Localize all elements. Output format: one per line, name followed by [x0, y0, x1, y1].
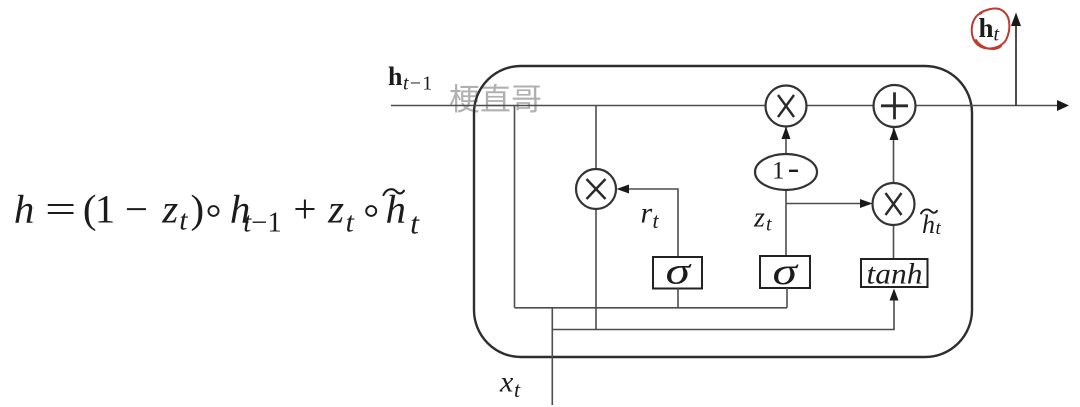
svg-text:x: x: [499, 366, 514, 399]
svg-text:t: t: [410, 206, 420, 241]
wire: bus 1 horizontal: [515, 307, 788, 309]
svg-text:t: t: [766, 214, 772, 236]
svg-text:t: t: [936, 218, 942, 239]
wire: vertical through 1- ellipse from top multiply to sigma2: [785, 106, 787, 257]
wire: bus 2 horizontal to tanh: [552, 291, 894, 330]
svg-text:t: t: [514, 377, 521, 402]
GRU cell rounded rectangle: [474, 66, 972, 357]
wire: sigma2 bottom to bus 1: [786, 288, 788, 308]
wire: output vertical arrow h_t: [1015, 17, 1017, 106]
wire: vertical A from h line down to bus 1: [514, 106, 516, 308]
arrowhead up into tanh: [890, 289, 899, 301]
svg-text:+: +: [293, 187, 316, 231]
svg-text:t: t: [179, 205, 188, 237]
svg-text:h: h: [922, 210, 935, 239]
wire: vertical through update multiply down to tanh: [893, 106, 895, 259]
svg-text:1: 1: [772, 158, 785, 185]
arrowhead up into plus circle: [890, 128, 899, 141]
svg-text:r: r: [641, 197, 653, 230]
wire: vertical B from h line through reset-multiply down to bus 2: [595, 106, 597, 330]
arrowhead up into top multiply: [782, 127, 791, 140]
svg-text:t−1: t−1: [243, 208, 281, 239]
sigma box 1: [653, 251, 702, 293]
svg-text:1: 1: [95, 187, 115, 231]
multiply circle update gate: [873, 183, 915, 225]
svg-text:σ: σ: [666, 251, 692, 293]
multiply circle top: [766, 86, 807, 127]
sigma box 2: [760, 251, 810, 293]
svg-text:tanh: tanh: [867, 258, 923, 291]
wire: from sigma1 up then left into reset multiply: [620, 189, 678, 257]
svg-text:z: z: [161, 187, 178, 231]
red hand-drawn circle around h_t: [972, 8, 1010, 49]
svg-text:z: z: [327, 187, 344, 231]
arrowhead left into reset multiply: [617, 185, 630, 194]
svg-text:σ: σ: [773, 251, 799, 293]
tanh box: [861, 258, 928, 291]
svg-text:h: h: [388, 62, 403, 91]
1- ellipse: [755, 154, 817, 190]
svg-text:t−1: t−1: [403, 73, 433, 95]
wire: branch from z line right into update multiply: [786, 203, 869, 205]
plus circle: [874, 85, 916, 127]
svg-text:=: =: [45, 187, 76, 231]
label h~_t: [921, 209, 942, 239]
svg-text:−: −: [125, 187, 148, 231]
arrowhead up output: [1011, 13, 1021, 27]
svg-text:t: t: [994, 24, 1000, 46]
arrowhead right into update multiply: [860, 199, 873, 208]
svg-text:h: h: [14, 187, 34, 231]
svg-text:t: t: [346, 207, 355, 239]
svg-text:z: z: [753, 203, 765, 234]
equation h = (1 - z_t) o h_{t-1} + z_t o h~_t: [14, 187, 420, 240]
watermark 梗直哥: [450, 84, 540, 113]
svg-text:): ): [190, 187, 204, 231]
wire: x_t input vertical: [551, 308, 553, 405]
svg-text:t: t: [653, 208, 660, 233]
wire: sigma1 bottom to bus 1: [677, 289, 679, 308]
multiply circle reset gate: [576, 169, 616, 209]
arrowhead right end of h line: [1057, 100, 1069, 111]
svg-text:h: h: [386, 187, 406, 231]
wire: h line horizontal: [391, 105, 1064, 107]
svg-text:h: h: [979, 13, 994, 43]
